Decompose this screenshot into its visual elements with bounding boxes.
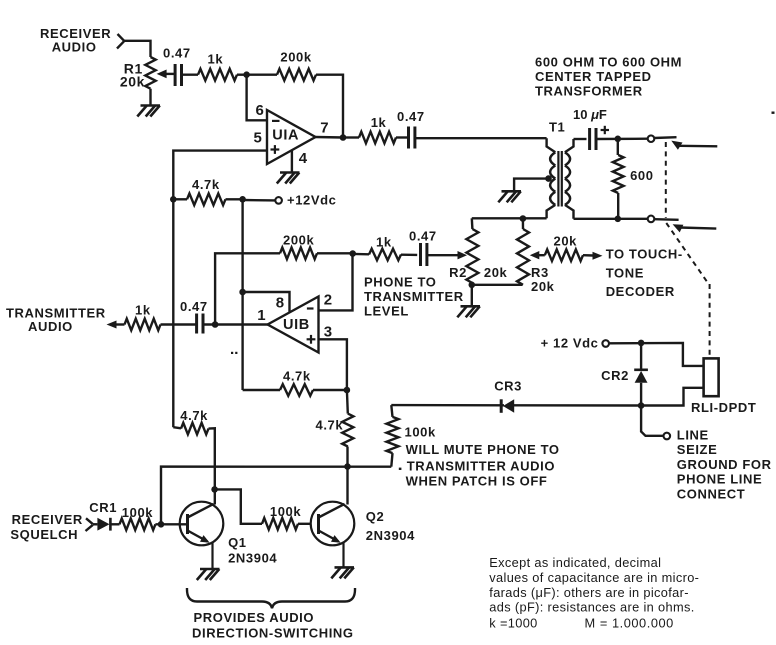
svg-text:ads (pF): resistances are in o: ads (pF): resistances are in ohms. [489,600,694,615]
svg-text:4.7k: 4.7k [316,417,344,432]
svg-text:1: 1 [257,307,266,324]
wire 100k mute stems [391,405,392,417]
svg-text:1k: 1k [208,51,224,66]
svg-text:CONNECT: CONNECT [677,487,745,502]
svg-text:CENTER TAPPED: CENTER TAPPED [535,69,652,84]
svg-text:PHONE TO: PHONE TO [364,275,436,290]
wire 4.7k left vertical from pin5 line [173,427,181,428]
svg-text:600 OHM TO 600 OHM: 600 OHM TO 600 OHM [535,54,682,69]
node TRANSMITTER AUDIO output arrow [107,321,117,329]
svg-text:GROUND FOR: GROUND FOR [677,457,772,472]
wire 600 stems [617,139,619,155]
svg-text:0.47: 0.47 [409,228,437,243]
node U1B output junction [212,321,219,328]
svg-text:600: 600 [630,168,654,183]
svg-text:TO TOUCH-: TO TOUCH- [606,247,683,262]
wire Q1 collector up [214,489,216,504]
wire C1 to 1k [182,73,199,75]
relay RL1-DPDT coil box [704,358,719,396]
wire receiver audio to R1 top [124,41,151,57]
node R3 top junction [520,215,527,222]
svg-text:RECEIVER: RECEIVER [40,26,111,41]
node RECEIVER SQUELCH input connector [86,518,93,524]
svg-text:20k: 20k [484,265,508,280]
diode CR2 [640,343,642,369]
terminal phone line top [648,135,655,142]
capacitor 0.47 (receiver input) [174,64,177,86]
wire pin 5 to bias line [173,151,267,428]
svg-text:100k: 100k [270,504,301,519]
svg-text:values of capacitance are in m: values of capacitance are in micro- [489,570,699,585]
resistor 200k (U1B feedback) [280,248,317,260]
svg-text:R2: R2 [449,265,467,280]
node pin8 junction [239,289,246,296]
wire pin 4 to ground [291,151,293,172]
wire T1 secondary top to 10uF [574,138,587,140]
node Q1 base junction [158,521,165,528]
wire CR3 to 100k mute corner [391,404,504,407]
svg-text:AUDIO: AUDIO [52,40,97,55]
resistor 20k (to decoder) [545,249,583,261]
capacitor 0.47 (transmitter out) [195,314,198,334]
svg-text:UIA: UIA [272,128,299,144]
wire collector rail [161,467,391,525]
svg-text:100k: 100k [122,505,153,520]
resistor 1k (transmitter audio) [125,319,161,331]
wire 1k to transmitter arrow [116,323,125,325]
potentiometer R1 20k [145,57,155,89]
svg-text:20k: 20k [531,279,555,294]
wire 200k to output corner [316,75,343,138]
svg-text:Q2: Q2 [366,509,385,524]
wire 10uF to line terminal [596,137,648,140]
resistor 100k (Q1 to Q2) [262,518,298,530]
wire output junction to 1k [343,136,359,138]
dashed relay linkage upper [665,142,667,218]
wire after bottom terminal [654,218,678,221]
node B junction (pin 2 node) [349,250,356,257]
wire +12V junction down to pin8 and 4.7k [241,199,243,390]
capacitor 10 uF [588,128,591,150]
svg-text:RLI-DPDT: RLI-DPDT [691,400,756,415]
svg-text:WHEN PATCH IS OFF: WHEN PATCH IS OFF [406,474,548,489]
svg-text:TONE: TONE [606,265,644,280]
wire node A to 200k [247,73,277,75]
wire +12Vdc to relay [609,343,703,366]
svg-text:CR1: CR1 [89,500,117,515]
switch contact arrow top [671,141,682,150]
resistor 200k (U1A feedback) [277,69,316,81]
wire to +12Vdc terminal [243,199,276,202]
label + polarity 10uF [601,129,609,131]
node 600 bottom junction [615,216,622,223]
svg-text:AUDIO: AUDIO [28,319,73,334]
svg-text:Except as indicated, decimal: Except as indicated, decimal [489,555,661,570]
stray mark top right [772,112,775,114]
transistor Q2 2N3904 [311,502,355,546]
wire cap to T1 primary [416,137,547,139]
svg-text:+ 12 Vdc: + 12 Vdc [541,335,599,350]
svg-text:TRANSFORMER: TRANSFORMER [535,83,643,98]
wire node A down to pin 6 [247,75,267,121]
wire cap to 1k transmitter [161,323,197,325]
node bias junction on pin5 line [170,196,177,203]
svg-text:RECEIVER: RECEIVER [12,512,83,527]
node +12V junction [239,196,246,203]
ground at T1 center tap [502,190,522,193]
stray speck near U1B [231,352,233,354]
resistor 1k (phone level) [369,249,401,261]
node pin3 bias junction [344,387,351,394]
svg-text:20k: 20k [554,234,578,249]
wire U1A output [316,136,344,139]
terminal LINE SEIZE [664,433,671,440]
svg-text:+12Vdc: +12Vdc [287,193,337,208]
brace provides audio [187,588,355,608]
svg-text:WILL MUTE PHONE TO: WILL MUTE PHONE TO [406,442,560,457]
potentiometer R2 20k [466,229,478,283]
svg-text:3: 3 [324,323,333,340]
svg-text:R3: R3 [531,265,549,280]
wire 4.7k to Q1 collector [209,428,215,489]
terminal phone line bottom [648,216,655,223]
svg-text:8: 8 [276,295,285,312]
node CR2 bottom junction [638,402,645,409]
svg-text:0.47: 0.47 [180,299,208,314]
terminal + 12 Vdc [602,340,609,347]
wire R2 bottom to ground [471,285,473,306]
node rail to Q2 collector [344,463,351,470]
diode CR1 [93,523,98,525]
wire R3 wiper to 20k [538,254,545,256]
resistor 100k (squelch) [120,519,156,531]
svg-text:DIRECTION-SWITCHING: DIRECTION-SWITCHING [192,626,354,641]
svg-text:5: 5 [254,129,263,146]
node 600 top junction [615,136,622,143]
svg-text:PROVIDES AUDIO: PROVIDES AUDIO [194,610,315,625]
ground under R2 [461,305,481,308]
op-amp U1B [268,297,319,353]
resistor 4.7k (Q2 collector) [342,414,353,447]
svg-text:TRANSMITTER AUDIO: TRANSMITTER AUDIO [407,458,555,473]
wire U1B output to cap [204,323,268,325]
svg-text:2: 2 [324,292,333,309]
wire 4.7k Q2 top stem [346,390,349,414]
capacitor 0.47 (transformer drive) [407,127,410,149]
wire 1k to 0.47 cap [396,136,407,138]
svg-text:SEIZE: SEIZE [677,442,718,457]
svg-text:0.47: 0.47 [397,109,425,124]
svg-text:T1: T1 [549,120,565,135]
dashed relay linkage lower [709,284,711,356]
diode CR3 [500,399,503,413]
node U1A output junction [340,134,347,141]
svg-text:farads (μF): others are in pic: farads (μF): others are in picofar- [489,585,689,600]
wire pin 8 to +12V line [243,292,290,312]
node TO TOUCH-TONE DECODER arrow [593,252,603,260]
svg-text:TRANSMITTER: TRANSMITTER [364,289,464,304]
resistor 100k (mute) [387,417,399,453]
wire bottom throw line [680,228,717,229]
wire R1 bottom to ground [149,89,151,105]
wire node B to 1k [353,253,369,256]
svg-text:4.7k: 4.7k [192,177,220,192]
resistor 1k (U1A input) [198,69,237,81]
node Q1 collector junction [211,486,218,493]
node RECEIVER AUDIO input connector [118,34,125,41]
capacitor 0.47 (phone level) [419,243,422,266]
wire top throw line [680,145,718,148]
svg-text:4.7k: 4.7k [180,408,208,423]
svg-text:4.7k: 4.7k [283,368,311,383]
wire T1 primary bottom to R2 row [472,217,547,219]
svg-text:UIB: UIB [283,317,310,333]
svg-text:k =1000: k =1000 [489,616,537,631]
svg-text:CR3: CR3 [494,379,522,394]
wire 1k to node A [237,73,247,75]
svg-text:1k: 1k [135,302,151,317]
node T1 center tap [545,175,552,182]
svg-text:DECODER: DECODER [606,284,675,299]
resistor 600 [613,155,624,193]
R3 wiper arrow [530,251,540,259]
wire T1 secondary bottom row [574,218,648,220]
svg-text:7: 7 [320,119,329,136]
svg-text:1k: 1k [376,234,392,249]
transformer T1 core [557,151,559,207]
wire pin 3 to 4.7k junction [319,339,347,390]
svg-text:CR2: CR2 [601,368,629,383]
transformer T1 secondary winding [565,139,574,152]
svg-text:20k: 20k [120,74,145,90]
wire 20k to decoder arrow [583,254,593,257]
resistor 1k (to transformer) [359,132,396,144]
potentiometer R3 20k [517,229,529,285]
svg-text:SQUELCH: SQUELCH [10,527,78,542]
svg-text:1k: 1k [371,115,387,130]
node A junction (U1A inverting input node) [243,71,250,78]
svg-text:200k: 200k [283,232,314,247]
wire 200k to node B [317,252,353,254]
wire 100k to Q1 base [110,523,119,525]
resistor 4.7k (bias divider upper) [187,194,226,206]
wire after top terminal [654,136,676,139]
transistor Q1 2N3904 [180,502,224,546]
terminal +12Vdc [275,197,282,204]
ground under U1A [280,171,300,174]
wire CR2 node to CR3 [514,404,641,407]
wire center tap to ground [514,179,548,191]
wire node B down to pin 2 [319,254,353,311]
dashed relay linkage diagonal [666,223,708,284]
wire R2 bottom to R3 bottom [472,284,523,286]
wire Q2 collector up [346,467,348,505]
stray speck near mute text [399,468,402,470]
switch contact arrow bottom [673,224,684,232]
node CR2 top junction [638,340,645,347]
svg-text:2N3904: 2N3904 [228,550,277,565]
svg-text:2N3904: 2N3904 [366,528,415,543]
wire Q2 collector stem to 4.7k [346,447,348,467]
wire bias resistor ends [173,198,187,200]
wire 1k to 0.47 cap [401,253,417,256]
wire R3 top stem [522,219,524,230]
ground under R1 [141,104,161,107]
resistor 4.7k (U1B noninverting bias) [280,384,313,396]
svg-text:0.47: 0.47 [163,46,191,61]
ground under Q2 [335,566,355,569]
svg-text:10 μF: 10 μF [573,107,607,122]
wire cap to R2 wiper with arrow [428,254,460,256]
svg-text:200k: 200k [280,50,311,65]
svg-text:PHONE LINE: PHONE LINE [677,472,762,487]
svg-text:4: 4 [299,150,308,167]
wire Q1 collector to 100k to Q2 base [215,489,262,523]
svg-text:Q1: Q1 [228,535,247,550]
resistor 4.7k (Q1 collector) [181,423,209,435]
wire R2 stems [471,218,474,229]
wire R1 wiper to C1 [166,73,176,75]
ground under Q1 [200,568,220,571]
wire U1B feedback up [215,253,280,324]
svg-text:6: 6 [256,102,265,119]
op-amp U1A [267,110,316,164]
transformer T1 primary winding [547,138,556,152]
svg-text:M = 1.000.000: M = 1.000.000 [585,616,674,631]
wire 4.7k bias ends [243,389,280,391]
svg-text:100k: 100k [405,424,436,439]
wire 100k to Q2 base [298,523,310,525]
wire line seize hook [641,406,663,436]
svg-text:LEVEL: LEVEL [364,304,409,319]
node R2 bottom junction [469,282,476,289]
wire relay bottom to CR2 node [641,388,703,406]
svg-text:LINE: LINE [677,427,709,442]
